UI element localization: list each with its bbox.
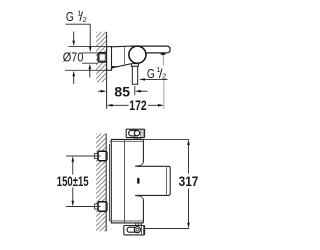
upper supply nut (bottom view): [90, 151, 107, 160]
wall surface line (bottom view): [105, 134, 107, 232]
dimension 150±15: [57, 156, 101, 207]
SafeStop slot mark: [137, 178, 139, 184]
aerator nub under spout: [160, 53, 165, 55]
supply pipe stub G1/2 (top view): [82, 53, 98, 63]
faucet body cone (top view): [112, 46, 131, 68]
svg-text:317: 317: [179, 174, 199, 189]
body rectangle (bottom view): [110, 139, 144, 223]
extension line at spout outlet for 172: [162, 55, 165, 109]
leader for G1/2 spout: horizontal with arrow to pipe: [139, 78, 168, 80]
escutcheon Ø70 (top view): [107, 47, 112, 71]
wall surface line (top view, also dimension extension line for 85/172): [106, 32, 108, 109]
svg-text:2: 2: [83, 15, 87, 24]
dimension 172: [107, 98, 164, 113]
wall (bottom view) hatched band: [96, 134, 106, 232]
spout bar (top view): [130, 46, 170, 53]
label Ø70: [63, 49, 84, 64]
shower outlet pipe: [132, 66, 137, 84]
outlet collar below body: [131, 64, 138, 67]
leader for G1/2 upper: [66, 24, 92, 77]
union nut (top view): [98, 53, 106, 62]
dimension Ø70 extension lines: [65, 47, 107, 71]
dimension 317: [143, 139, 198, 228]
thermostat handle circle (top view): [129, 46, 146, 63]
top handle (plan): block, grip pill, button, ring: [126, 129, 144, 139]
svg-text:172: 172: [129, 98, 146, 113]
svg-text:G: G: [147, 66, 155, 81]
svg-text:85: 85: [114, 84, 130, 100]
svg-text:G: G: [66, 9, 74, 24]
label G1/2 (at spout outlet): [147, 65, 166, 81]
dimension Ø70 arrows: [72, 32, 75, 85]
mounting plate edge line: [109, 144, 111, 221]
svg-text:Ø70: Ø70: [63, 49, 84, 64]
dimension 85: [98, 84, 148, 100]
svg-text:150±15: 150±15: [57, 173, 89, 189]
lower supply nut (bottom view): [90, 202, 107, 211]
bottom handle (plan): block, grip pill, knob, ring: [124, 224, 145, 235]
wall (top view) hatched band: [96, 32, 107, 82]
label G1/2 (upper left): [66, 8, 87, 24]
spout block protrusion (bottom view): [135, 162, 170, 200]
